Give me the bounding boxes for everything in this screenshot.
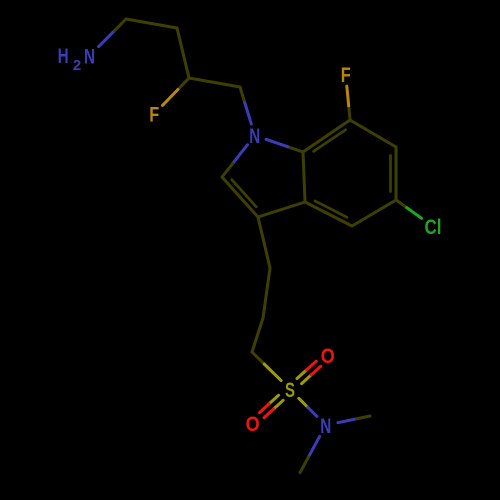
bond CH2-S [252, 352, 281, 381]
bond C2'-C1' [189, 78, 240, 87]
svg-text:N: N [84, 46, 95, 69]
svg-text:F: F [341, 64, 351, 87]
svg-text:N: N [249, 125, 260, 148]
bond C7-C6 [350, 120, 396, 147]
bond C7a-N1 [266, 139, 303, 152]
svg-text:H: H [58, 45, 69, 68]
double bond S=O (upper) [297, 361, 321, 383]
svg-text:F: F [149, 104, 159, 127]
svg-text:Cl: Cl [425, 216, 442, 239]
atom label Cl (chlorine) [425, 216, 442, 239]
bond C5-C4 [352, 200, 396, 226]
bond C3'-C2' [177, 28, 189, 78]
bond C7-F [347, 86, 350, 120]
atom label O (lower sulfonyl oxygen) [246, 413, 260, 436]
atom label F (chain fluorine) [149, 104, 159, 127]
atom label F (aryl fluorine) [341, 64, 351, 87]
double bond C7a=C7 [303, 120, 350, 152]
atom label N (sulfonamide nitrogen) [320, 415, 331, 438]
svg-text:O: O [246, 413, 260, 436]
atom label N1 (indole nitrogen) [249, 125, 260, 148]
bond C2'-F [163, 78, 190, 105]
bond N(amine)-CH2 C4' [99, 19, 126, 47]
double bond C6=C5 [391, 147, 397, 200]
svg-text:N: N [320, 415, 331, 438]
bond C1'-N1 [240, 87, 251, 124]
atom label H2N (amine) [58, 45, 95, 74]
bond CH2-CH2 [263, 268, 270, 318]
bond C4'-C3' [126, 19, 177, 28]
atom label S (sulfonyl sulfur) [285, 379, 295, 402]
bond S-N [299, 398, 317, 416]
svg-text:2: 2 [73, 57, 81, 74]
atom label O (upper sulfonyl oxygen) [321, 345, 335, 368]
double bond C2=C3 [222, 177, 258, 217]
bond N1-C2 [222, 145, 247, 177]
double bond S=O (lower) [260, 395, 284, 417]
bond C3a-C7a (ring fusion) [303, 152, 305, 202]
bond C5-Cl [396, 200, 422, 218]
bond C3-CH2 [258, 217, 270, 268]
bond N-CH3 (right) [338, 416, 370, 423]
bond CH2-CH2 [252, 318, 263, 352]
bond N-CH3 (lower) [300, 436, 320, 472]
bond C3-C3a [258, 202, 305, 217]
double bond C4=C3a [305, 201, 352, 226]
svg-text:O: O [321, 345, 335, 368]
svg-text:S: S [285, 379, 295, 402]
